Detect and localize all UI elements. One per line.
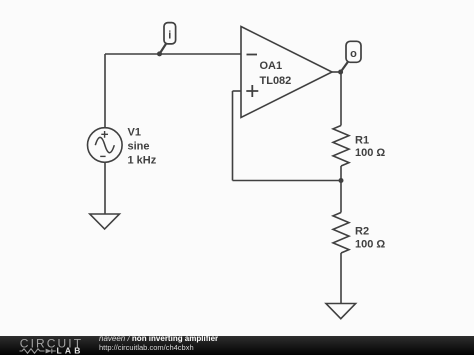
svg-text:naveen / non inverting amplifi: naveen / non inverting amplifier	[99, 334, 218, 343]
svg-text:OA1: OA1	[260, 60, 283, 72]
node i flag	[160, 23, 176, 54]
node i junction dot	[157, 51, 162, 56]
svg-text:o: o	[350, 48, 357, 60]
svg-text:R1: R1	[355, 134, 369, 146]
wire R1 bottom to junction	[340, 166, 342, 181]
svg-text:LAB: LAB	[57, 346, 84, 355]
wire output node down to R1	[340, 72, 342, 126]
node o flag	[341, 41, 361, 72]
resistor R1	[333, 126, 349, 167]
ground (left, below V1)	[90, 214, 120, 229]
svg-text:TL082: TL082	[260, 75, 292, 87]
CircuitLab logo	[20, 337, 84, 355]
resistor R2	[333, 213, 349, 254]
wire top horizontal from V1 to op-amp inverting input	[105, 53, 241, 55]
footer title text	[99, 334, 218, 352]
svg-text:http://circuitlab.com/ch4cbxh: http://circuitlab.com/ch4cbxh	[99, 343, 194, 352]
svg-text:1 kHz: 1 kHz	[128, 155, 157, 167]
svg-text:V1: V1	[128, 127, 141, 139]
svg-text:i: i	[168, 30, 171, 42]
node o junction dot	[338, 70, 343, 75]
junction dot between R1 and R2	[339, 178, 344, 183]
svg-text:100 Ω: 100 Ω	[355, 147, 385, 159]
wire feedback vertical segment	[232, 91, 234, 181]
ground (right, below R2)	[326, 304, 356, 319]
wire R2 bottom to ground	[340, 253, 342, 304]
label V1 value	[128, 127, 157, 167]
svg-text:100 Ω: 100 Ω	[355, 239, 385, 251]
op-amp OA1 TL082	[241, 27, 332, 118]
label R2 value	[355, 226, 385, 251]
svg-text:R2: R2	[355, 226, 369, 238]
voltage source V1 (sine)	[88, 128, 123, 163]
label R1 value	[355, 134, 385, 159]
wire feedback horizontal segment to R1/R2 junction	[233, 180, 342, 182]
wire junction to R2 top	[340, 181, 342, 213]
svg-text:sine: sine	[128, 141, 150, 153]
label OA1	[260, 60, 292, 87]
wire V1 bottom to ground	[104, 163, 106, 215]
wire left vertical from top wire down to V1	[104, 54, 106, 128]
wire op-amp output lead	[332, 71, 341, 73]
wire non-inverting input lead	[233, 90, 242, 92]
